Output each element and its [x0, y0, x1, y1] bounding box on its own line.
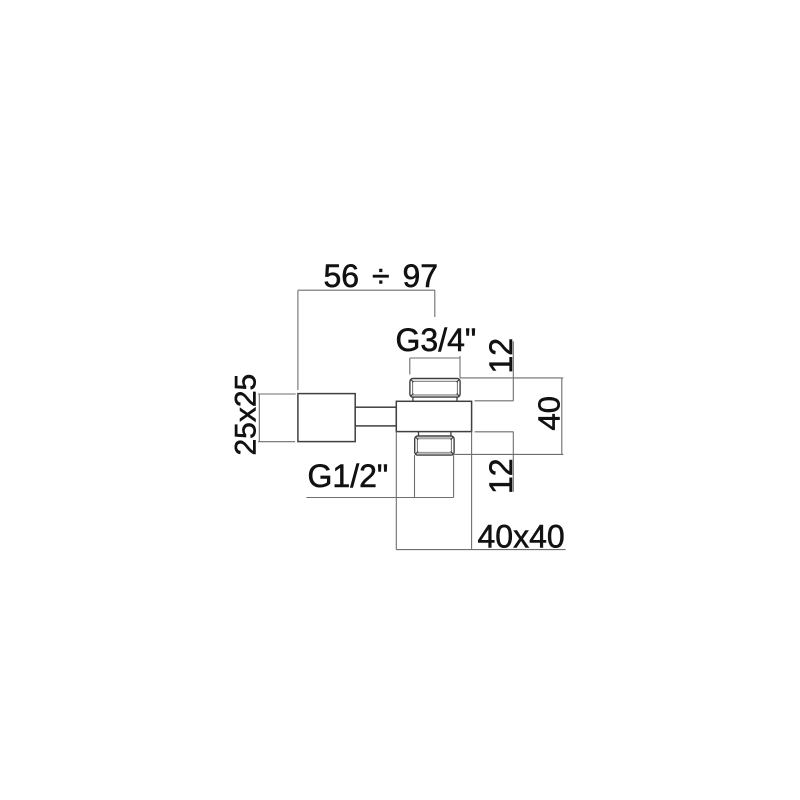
extension line left of 56/97 down to handle	[297, 290, 299, 390]
svg-text:40x40: 40x40	[478, 518, 565, 554]
dimension line 40	[561, 378, 563, 455]
svg-text:12: 12	[483, 338, 519, 374]
svg-text:25x25: 25x25	[230, 374, 263, 456]
dimension line 12 bottom	[512, 432, 514, 492]
dimension line 12 top	[512, 341, 514, 401]
extension line body top to right	[475, 400, 514, 402]
40x40 underline	[396, 549, 565, 551]
bottom nut neck	[419, 432, 451, 436]
svg-text:56 ÷ 97: 56 ÷ 97	[324, 258, 439, 294]
top nut neck	[413, 397, 457, 401]
bottom nut G1/2	[415, 436, 454, 455]
25x25 bracket	[258, 394, 296, 442]
extension line right of 56/97	[434, 290, 436, 317]
G1/2 leader line	[306, 497, 453, 499]
extension line nut bottom to right	[454, 453, 563, 455]
handle 25x25 square	[298, 394, 355, 442]
extension line nut top to right	[460, 377, 563, 379]
extension line body bottom to right	[475, 431, 514, 433]
svg-text:12: 12	[483, 458, 519, 494]
40x40 extension right	[471, 432, 473, 550]
G1/2 extension right	[453, 455, 455, 497]
G1/2 extension left	[414, 455, 416, 497]
G3/4 bracket	[410, 356, 460, 378]
valve body 40x40	[396, 401, 471, 431]
svg-text:G1/2": G1/2"	[308, 458, 389, 494]
40x40 extension left	[395, 432, 397, 550]
dimension 56/97 horizontal line	[298, 289, 435, 291]
svg-text:40: 40	[532, 396, 567, 430]
top nut G3/4	[410, 379, 460, 398]
stem connecting handle to body	[355, 407, 396, 426]
svg-text:G3/4": G3/4"	[396, 322, 477, 358]
